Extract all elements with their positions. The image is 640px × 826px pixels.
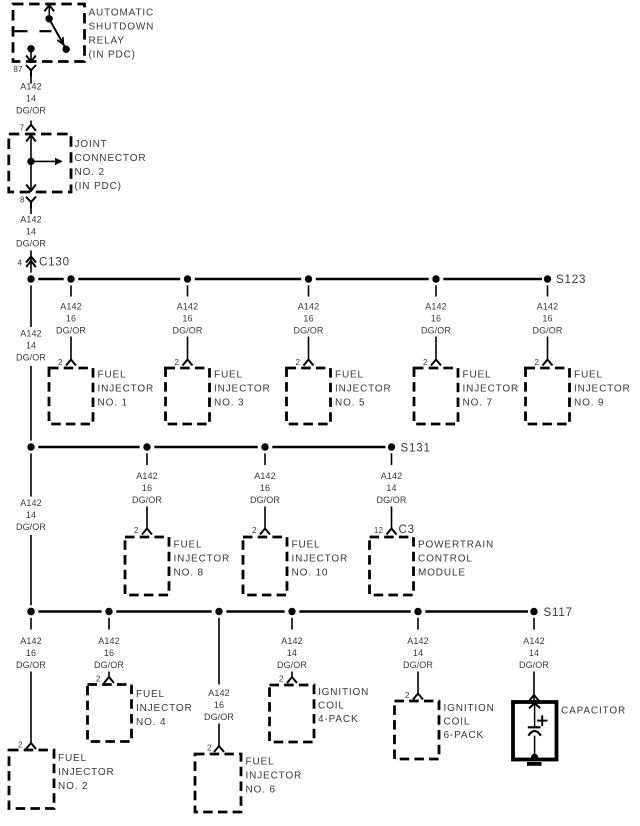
svg-text:NO. 6: NO. 6 — [246, 785, 276, 796]
svg-text:2: 2 — [58, 358, 63, 367]
svg-text:DG/OR: DG/OR — [519, 660, 549, 670]
svg-text:16: 16 — [66, 314, 76, 324]
svg-text:DG/OR: DG/OR — [56, 326, 86, 336]
svg-text:NO. 8: NO. 8 — [174, 568, 204, 579]
junction stub on bus at capacitor branch — [533, 618, 535, 630]
capacitor box — [513, 702, 626, 760]
svg-text:DG/OR: DG/OR — [16, 353, 46, 363]
svg-text:A142: A142 — [208, 688, 229, 698]
svg-text:IGNITION: IGNITION — [444, 703, 495, 714]
pin 2 of ignition coil 4-PACK — [279, 675, 297, 684]
svg-text:16: 16 — [260, 483, 270, 493]
svg-text:A142: A142 — [20, 498, 41, 508]
svg-text:S117: S117 — [544, 607, 573, 619]
bus wire to splice S117 — [38, 610, 528, 613]
svg-text:DG/OR: DG/OR — [132, 495, 162, 505]
pin 2 of fuel injector NO. 1 — [58, 358, 76, 367]
svg-text:16: 16 — [26, 648, 36, 658]
svg-text:FUEL: FUEL — [335, 370, 364, 381]
fuel injector NO. 7 box — [414, 368, 519, 424]
svg-text:FUEL: FUEL — [98, 370, 127, 381]
junction on bus at injector NO. 7 branch — [432, 275, 439, 296]
svg-text:A142: A142 — [136, 471, 157, 481]
pin 2 of fuel injector NO. 6 — [207, 744, 224, 753]
pin 2 of fuel injector NO. 9 — [534, 358, 552, 367]
svg-text:AUTOMATIC: AUTOMATIC — [89, 8, 155, 19]
bus wire to splice S123 — [38, 278, 542, 281]
wire A142 14 DG/OR from S123 to S131 — [16, 285, 46, 440]
svg-text:JOINT: JOINT — [75, 139, 108, 150]
junction dot at bus 2 corner — [27, 443, 34, 450]
splice S131 — [388, 443, 431, 455]
svg-text:NO. 7: NO. 7 — [463, 398, 493, 409]
svg-text:NO. 2: NO. 2 — [58, 781, 88, 792]
relay internal: coil dashed line — [15, 30, 52, 32]
fuel injector NO. 2 box — [9, 750, 115, 809]
wire A142 16 DG/OR to fuel injector NO. 4 — [94, 636, 124, 677]
svg-text:2: 2 — [252, 526, 257, 535]
svg-text:2: 2 — [174, 358, 179, 367]
joint connector name text — [75, 139, 147, 192]
svg-text:INJECTOR: INJECTOR — [214, 384, 271, 395]
junction on bus at FUEL INJECTOR NO. 10 branch — [261, 443, 268, 465]
capacitor internal element — [528, 703, 541, 761]
ignition coil 4-PACK box — [270, 685, 370, 742]
svg-text:2: 2 — [405, 691, 410, 700]
svg-text:DG/OR: DG/OR — [16, 239, 46, 249]
wire A142 14 DG/OR to ignition coil 6-PACK — [403, 636, 433, 694]
svg-text:A142: A142 — [20, 215, 41, 225]
relay name text — [89, 8, 155, 61]
FUEL INJECTOR NO. 10 box — [243, 537, 348, 595]
svg-text:4: 4 — [17, 259, 22, 268]
svg-text:DG/OR: DG/OR — [277, 660, 307, 670]
fuel injector NO. 5 box — [287, 368, 392, 424]
svg-text:FUEL: FUEL — [574, 370, 603, 381]
svg-text:MODULE: MODULE — [418, 568, 466, 579]
junction dot at bus 3 corner — [27, 608, 34, 615]
junction on bus at injector NO. 3 branch — [184, 275, 191, 296]
pin 2 of fuel injector NO. 5 — [295, 358, 313, 367]
wire A142 14 DG/OR to ignition coil 4-PACK — [277, 636, 307, 677]
splice S117 — [530, 607, 573, 619]
svg-text:7: 7 — [19, 124, 24, 133]
relay: AUTOMATIC SHUTDOWN RELAY box (IN PDC) — [13, 4, 85, 62]
svg-text:CONNECTOR: CONNECTOR — [75, 153, 147, 164]
svg-text:A142: A142 — [537, 302, 558, 312]
svg-text:FUEL: FUEL — [214, 370, 243, 381]
svg-text:14: 14 — [26, 341, 36, 351]
relay internal: output contact arrow down to pin 87 — [26, 45, 36, 62]
pin 87 connector half — [13, 65, 36, 77]
svg-text:2: 2 — [423, 358, 428, 367]
svg-text:16: 16 — [142, 483, 152, 493]
pin 7 in-line connector — [19, 124, 36, 133]
svg-text:87: 87 — [13, 65, 23, 74]
junction on bus at FUEL INJECTOR NO. 8 branch — [143, 443, 150, 465]
svg-text:DG/OR: DG/OR — [94, 660, 124, 670]
wire A142 14 DG/OR from joint connector pin 8 — [16, 208, 46, 260]
svg-text:A142: A142 — [60, 302, 81, 312]
svg-text:16: 16 — [104, 648, 114, 658]
in-line connector at capacitor — [529, 695, 539, 702]
svg-text:INJECTOR: INJECTOR — [574, 384, 631, 395]
wire A142 14 DG/OR to capacitor — [519, 636, 549, 695]
svg-text:DG/OR: DG/OR — [172, 326, 202, 336]
svg-text:2: 2 — [96, 675, 101, 684]
svg-text:A142: A142 — [523, 636, 544, 646]
junction on bus at fuel injector NO. 2 branch — [27, 608, 34, 630]
svg-text:NO. 2: NO. 2 — [75, 167, 105, 178]
svg-text:C3: C3 — [399, 524, 415, 536]
FUEL INJECTOR NO. 8 box — [125, 537, 230, 595]
pin 2 of ignition coil 6-PACK — [405, 691, 423, 700]
svg-text:(IN PDC): (IN PDC) — [75, 181, 122, 192]
svg-text:DG/OR: DG/OR — [421, 326, 451, 336]
relay internal: common contact arrow to pin top — [45, 5, 55, 23]
svg-text:FUEL: FUEL — [246, 757, 275, 768]
svg-text:14: 14 — [26, 94, 36, 104]
junction dot at bus 1 corner — [27, 275, 34, 282]
svg-text:NO. 10: NO. 10 — [292, 568, 329, 579]
svg-text:A142: A142 — [281, 636, 302, 646]
svg-text:INJECTOR: INJECTOR — [246, 771, 303, 782]
wire A142 16 DG/OR to fuel injector NO. 2 — [16, 636, 46, 743]
svg-text:IGNITION: IGNITION — [318, 687, 369, 698]
wire A142 16 DG/OR to FUEL INJECTOR NO. 10 — [250, 471, 280, 529]
junction on bus at fuel injector NO. 6 branch — [215, 608, 222, 685]
svg-text:DG/OR: DG/OR — [293, 326, 323, 336]
svg-text:A142: A142 — [381, 471, 402, 481]
wire A142 16 DG/OR to fuel injector NO. 1 — [56, 302, 86, 360]
svg-text:DG/OR: DG/OR — [250, 495, 280, 505]
junction on bus at fuel injector NO. 4 branch — [105, 608, 112, 630]
POWERTRAIN CONTROL MODULE box — [370, 537, 495, 595]
wire A142 16 DG/OR to fuel injector NO. 3 — [172, 302, 202, 360]
svg-text:A142: A142 — [177, 302, 198, 312]
svg-text:DG/OR: DG/OR — [16, 106, 46, 116]
fuel injector NO. 6 box — [195, 754, 302, 812]
svg-text:NO. 1: NO. 1 — [98, 398, 128, 409]
svg-text:NO. 9: NO. 9 — [574, 398, 604, 409]
pin 8 connector half — [20, 196, 36, 209]
joint connector no.2 box (IN PDC) — [9, 134, 71, 192]
wire A142 14 DG/OR from S131 to S117 — [16, 453, 46, 605]
svg-text:2: 2 — [279, 675, 284, 684]
svg-text:14: 14 — [26, 510, 36, 520]
svg-text:NO. 4: NO. 4 — [136, 717, 166, 728]
svg-text:4-PACK: 4-PACK — [318, 714, 358, 725]
wire A142 16 DG/OR to fuel injector NO. 5 — [293, 302, 323, 360]
svg-text:A142: A142 — [20, 636, 41, 646]
svg-text:14: 14 — [529, 648, 539, 658]
svg-text:CAPACITOR: CAPACITOR — [561, 706, 626, 717]
fuel injector NO. 4 box — [88, 685, 193, 742]
ground — [527, 762, 542, 766]
svg-text:16: 16 — [214, 700, 224, 710]
svg-text:INJECTOR: INJECTOR — [292, 554, 349, 565]
svg-text:COIL: COIL — [318, 701, 345, 712]
wire A142 16 DG/OR to fuel injector NO. 6 — [204, 688, 234, 746]
connector C130 pin 4 — [17, 257, 69, 273]
svg-text:2: 2 — [207, 744, 212, 753]
svg-text:16: 16 — [182, 314, 192, 324]
fuel injector NO. 9 box — [526, 368, 631, 424]
svg-text:6-PACK: 6-PACK — [444, 730, 484, 741]
svg-text:12: 12 — [374, 526, 384, 535]
svg-text:8: 8 — [20, 196, 25, 205]
svg-text:14: 14 — [287, 648, 297, 658]
svg-text:FUEL: FUEL — [463, 370, 492, 381]
svg-text:DG/OR: DG/OR — [376, 495, 406, 505]
pin 2 of FUEL INJECTOR NO. 10 — [252, 526, 270, 535]
junction on bus at injector NO. 9 branch — [547, 285, 549, 296]
wire A142 16 DG/OR to fuel injector NO. 9 — [532, 302, 562, 360]
svg-text:DG/OR: DG/OR — [403, 660, 433, 670]
pin 12 of POWERTRAIN CONTROL MODULE — [374, 524, 415, 536]
wire A142 16 DG/OR to FUEL INJECTOR NO. 8 — [132, 471, 162, 529]
svg-text:NO. 3: NO. 3 — [214, 398, 244, 409]
svg-text:A142: A142 — [407, 636, 428, 646]
junction on bus at POWERTRAIN CONTROL MODULE branch — [391, 453, 393, 465]
svg-text:DG/OR: DG/OR — [532, 326, 562, 336]
svg-text:FUEL: FUEL — [58, 753, 87, 764]
svg-text:FUEL: FUEL — [174, 540, 203, 551]
fuel injector NO. 1 box — [49, 368, 154, 424]
svg-text:DG/OR: DG/OR — [16, 660, 46, 670]
svg-text:A142: A142 — [20, 82, 41, 92]
wire A142 14 DG/OR to POWERTRAIN CONTROL MODULE — [376, 471, 406, 529]
svg-text:INJECTOR: INJECTOR — [136, 703, 193, 714]
svg-text:14: 14 — [413, 648, 423, 658]
svg-text:RELAY: RELAY — [89, 36, 125, 47]
junction on bus at injector NO. 1 branch — [67, 275, 74, 296]
svg-text:A142: A142 — [425, 302, 446, 312]
svg-text:A142: A142 — [98, 636, 119, 646]
pin 2 of FUEL INJECTOR NO. 8 — [134, 526, 152, 535]
svg-text:S123: S123 — [556, 274, 586, 286]
svg-text:INJECTOR: INJECTOR — [174, 554, 231, 565]
splice S123 — [544, 274, 586, 286]
svg-text:(IN PDC): (IN PDC) — [89, 50, 136, 61]
svg-text:A142: A142 — [20, 329, 41, 339]
pin 2 of fuel injector NO. 7 — [423, 358, 441, 367]
wire A142 16 DG/OR to fuel injector NO. 7 — [421, 302, 451, 360]
svg-text:A142: A142 — [298, 302, 319, 312]
svg-text:14: 14 — [26, 227, 36, 237]
svg-text:INJECTOR: INJECTOR — [463, 384, 520, 395]
svg-text:FUEL: FUEL — [292, 540, 321, 551]
svg-text:A142: A142 — [254, 471, 275, 481]
pin 2 of fuel injector NO. 4 — [96, 675, 114, 684]
svg-text:INJECTOR: INJECTOR — [58, 767, 115, 778]
fuel injector NO. 3 box — [166, 368, 271, 424]
svg-text:16: 16 — [542, 314, 552, 324]
pin 2 of fuel injector NO. 2 — [18, 741, 36, 750]
svg-text:C130: C130 — [39, 257, 70, 269]
pin 2 of fuel injector NO. 3 — [174, 358, 192, 367]
svg-text:S131: S131 — [401, 443, 431, 455]
svg-text:DG/OR: DG/OR — [204, 712, 234, 722]
svg-text:COIL: COIL — [444, 717, 471, 728]
polarity + mark — [537, 715, 548, 726]
bus wire to splice S131 — [38, 446, 385, 449]
wire A142 14 DG/OR from relay pin 87 — [16, 77, 46, 125]
ignition coil 6-PACK box — [395, 701, 495, 759]
svg-text:2: 2 — [295, 358, 300, 367]
svg-text:DG/OR: DG/OR — [16, 522, 46, 532]
svg-text:14: 14 — [386, 483, 396, 493]
junction on bus at ignition coil 4-PACK branch — [288, 608, 295, 630]
svg-text:NO. 5: NO. 5 — [335, 398, 365, 409]
svg-text:INJECTOR: INJECTOR — [98, 384, 155, 395]
junction on bus at injector NO. 5 branch — [305, 275, 312, 296]
svg-text:POWERTRAIN: POWERTRAIN — [418, 540, 494, 551]
svg-text:SHUTDOWN: SHUTDOWN — [89, 22, 155, 33]
relay internal: switch blade diagonal with arrowhead — [49, 19, 70, 53]
svg-text:2: 2 — [134, 526, 139, 535]
junction on bus at ignition coil 6-PACK branch — [414, 608, 421, 630]
svg-text:CONTROL: CONTROL — [418, 554, 473, 565]
svg-text:2: 2 — [18, 741, 23, 750]
joint connector internal bus with arrows — [26, 135, 63, 191]
svg-text:2: 2 — [534, 358, 539, 367]
svg-text:16: 16 — [431, 314, 441, 324]
svg-text:INJECTOR: INJECTOR — [335, 384, 392, 395]
svg-text:16: 16 — [303, 314, 313, 324]
svg-text:FUEL: FUEL — [136, 689, 165, 700]
